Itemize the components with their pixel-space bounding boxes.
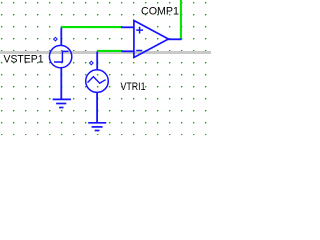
node marker diamond at VTRI1 xyxy=(90,61,94,65)
- input pin xyxy=(121,50,133,52)
minus symbol xyxy=(136,50,142,52)
svg-text:VTRI1: VTRI1 xyxy=(121,81,146,93)
wire from VTRI1 top to COMP1 - input xyxy=(97,50,121,52)
sheet boundary gray line xyxy=(0,51,211,54)
svg-text:VSTEP1: VSTEP1 xyxy=(4,54,44,66)
svg-text:COMP1: COMP1 xyxy=(141,6,179,18)
voltage step source VSTEP1 xyxy=(49,28,71,99)
ground under VSTEP1 xyxy=(53,99,71,107)
output pin xyxy=(168,38,181,40)
wire from VSTEP1 top to COMP1 + input xyxy=(61,26,121,28)
triangle-wave source VTRI1 xyxy=(86,52,109,124)
plus symbol xyxy=(136,27,143,34)
+ input pin xyxy=(121,26,134,28)
ground under VTRI1 xyxy=(88,123,106,131)
node marker diamond at VSTEP1 xyxy=(54,37,58,41)
wire from COMP1 output to top edge xyxy=(180,0,182,39)
comparator COMP1 xyxy=(121,21,182,58)
